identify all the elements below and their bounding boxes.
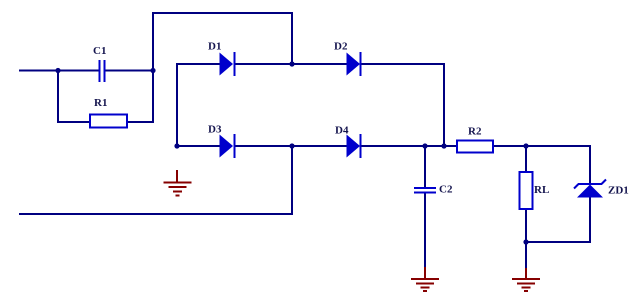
svg-text:D1: D1 <box>208 41 221 53</box>
svg-text:C2: C2 <box>439 184 453 196</box>
svg-text:D2: D2 <box>334 41 348 53</box>
svg-text:R1: R1 <box>94 97 107 109</box>
svg-text:ZD1: ZD1 <box>608 185 629 197</box>
svg-text:R2: R2 <box>468 126 482 138</box>
svg-text:D3: D3 <box>208 124 222 136</box>
svg-text:RL: RL <box>534 184 549 196</box>
svg-text:D4: D4 <box>335 125 349 137</box>
svg-text:C1: C1 <box>93 45 106 57</box>
